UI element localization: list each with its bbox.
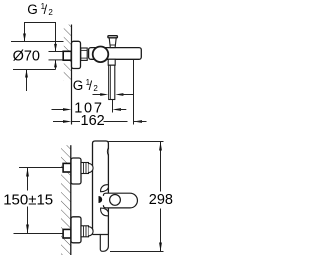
svg-text:298: 298 [149, 192, 173, 208]
union nut (side view) [81, 48, 87, 60]
dimension Ø70 extension line bottom [13, 69, 56, 71]
faucet body (front view) [93, 141, 109, 235]
svg-text:162: 162 [81, 113, 105, 129]
svg-text:/: / [89, 79, 93, 93]
svg-text:/: / [44, 3, 48, 17]
union nut 1 with cap [81, 163, 93, 174]
dimension 298 [149, 142, 173, 252]
shower outlet collar [108, 59, 115, 65]
wall socket square 2 [63, 229, 71, 238]
svg-text:G: G [27, 2, 38, 17]
dimension Ø70 extension line top [11, 41, 64, 43]
supply pipe centerline 1 / extension line 150 top [19, 167, 63, 169]
safety stop mark [99, 196, 103, 203]
wall socket square [63, 51, 71, 60]
temperature handle end (circle) [93, 47, 109, 63]
svg-text:2: 2 [48, 8, 53, 17]
extension line 298 top [108, 141, 163, 143]
diverter knob on top [108, 36, 118, 48]
G1/2 thread arrows at pipe (right pair) [54, 60, 57, 70]
shower outlet below body [100, 235, 108, 252]
label G1/2 (outlet) [73, 78, 99, 93]
dimension 162 [53, 113, 147, 129]
Ø70 lower outside arrow [25, 70, 28, 92]
supply pipe centerline 2 / extension line 150 bottom [14, 233, 64, 235]
svg-text:150±15: 150±15 [3, 191, 53, 208]
svg-text:Ø70: Ø70 [13, 48, 40, 64]
dimension 150±15 [3, 168, 53, 234]
outlet thread leader arrows [93, 93, 135, 96]
svg-text:2: 2 [93, 84, 98, 93]
wall socket square 1 [63, 163, 71, 172]
temperature handle capsule [103, 193, 137, 208]
shower outlet pipe [109, 65, 115, 99]
extension line outlet axis [112, 100, 114, 113]
clip tab on body right edge [107, 148, 108, 156]
dimension 107 [52, 101, 127, 117]
upper lever curl [101, 185, 109, 192]
escutcheon 2 (front view) [71, 217, 81, 243]
escutcheon 1 (front view) [71, 158, 81, 184]
diverter button circle [110, 195, 121, 206]
escutcheon (side view) [72, 41, 81, 68]
wall section (hatched), top view [64, 25, 72, 125]
union nut 2 with cap [81, 226, 93, 237]
leader bracket from G1/2 [23, 23, 57, 52]
svg-text:G: G [73, 78, 84, 93]
faucet body (side view) [89, 48, 142, 60]
lower lever curl [101, 208, 109, 216]
label G1/2 (top) [27, 2, 53, 17]
wall section (hatched), bottom view [61, 145, 71, 255]
supply pipe in wall [49, 52, 64, 60]
extension line body front [133, 60, 135, 125]
extension line 298 bottom [110, 251, 164, 253]
